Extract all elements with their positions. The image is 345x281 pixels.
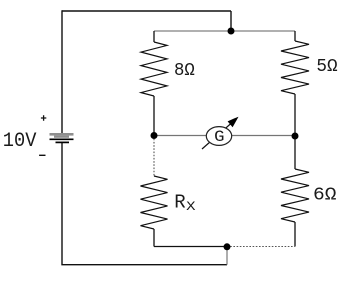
- svg-text:10V: 10V: [3, 130, 37, 153]
- svg-text:8Ω: 8Ω: [174, 61, 195, 81]
- svg-text:X: X: [186, 199, 196, 214]
- svg-text:R: R: [174, 191, 185, 213]
- svg-text:5Ω: 5Ω: [316, 57, 337, 77]
- svg-text:G: G: [214, 128, 224, 146]
- svg-text:6Ω: 6Ω: [313, 186, 337, 206]
